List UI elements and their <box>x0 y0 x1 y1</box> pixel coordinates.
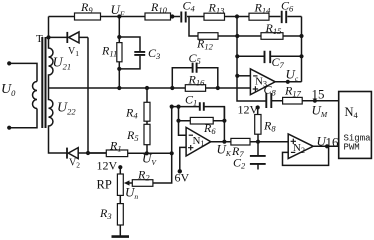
resistor R17 <box>283 97 303 104</box>
wire N3 minus input <box>237 75 250 77</box>
node R6 right <box>222 119 226 123</box>
capacitor C7 branch <box>237 55 301 57</box>
resistor R3 <box>117 204 123 225</box>
transformer core <box>41 37 43 128</box>
node V1/V2 join <box>86 151 90 155</box>
diode V2 <box>66 148 68 159</box>
node N2 output <box>325 144 329 148</box>
wire top rail y=16.5 <box>49 16 302 18</box>
op-amp N3 <box>250 69 275 95</box>
node on top rail x=172.3 <box>170 14 174 18</box>
node C1 line left <box>170 105 174 109</box>
svg-text:12V: 12V <box>97 159 118 173</box>
wire Uf drop <box>118 17 120 38</box>
transformer primary leads <box>9 63 37 127</box>
capacitor C8 <box>266 93 271 108</box>
wire N1 output row y=141.7 <box>211 141 288 143</box>
capacitor C4 <box>181 12 185 23</box>
wire V2 to node <box>78 152 106 154</box>
svg-text:6V: 6V <box>175 171 190 185</box>
capacitor C3 branch <box>119 37 140 69</box>
transformer primary coil <box>33 82 38 109</box>
resistor R13 <box>204 13 225 20</box>
resistor R16 <box>185 85 205 92</box>
potentiometer RP <box>119 167 121 203</box>
capacitor C5 branch <box>172 68 218 88</box>
transformer secondary U22 <box>49 88 67 153</box>
wire R12 left branch <box>189 17 198 37</box>
node 6V <box>178 169 182 173</box>
node Uf <box>117 14 121 18</box>
svg-text:T: T <box>36 33 43 45</box>
wire UV corner up to N1 input node <box>171 107 173 154</box>
resistor R6 <box>179 120 225 122</box>
resistor R2 <box>132 180 153 187</box>
wire N1 inverting branch <box>179 107 187 136</box>
wire left drop to V1 node <box>48 17 50 38</box>
node UV rail corner <box>170 151 174 155</box>
PWM block N4 <box>339 92 372 159</box>
resistor R1 <box>106 150 127 157</box>
svg-text:12V: 12V <box>238 103 259 117</box>
resistor R7 <box>231 138 250 145</box>
node C7 right <box>299 54 303 58</box>
wire N3 output <box>275 81 301 83</box>
resistor R10 <box>145 13 171 20</box>
wire R12 to junction <box>218 35 238 37</box>
node UV <box>145 151 149 155</box>
node UM <box>313 99 317 103</box>
node UK <box>222 140 226 144</box>
resistor R12 <box>198 33 218 40</box>
wire mid rail y=88 center tap <box>49 87 251 89</box>
resistor R15 <box>237 35 301 37</box>
resistor R11 <box>118 37 120 69</box>
node 12V R8 supply <box>256 105 260 109</box>
wire right vertical x=301.5 <box>301 17 303 82</box>
op-amp N2 <box>288 134 313 159</box>
node R6 left <box>176 119 180 123</box>
svg-text:PWM: PWM <box>344 143 360 153</box>
node mid rail x=119 <box>117 86 121 90</box>
node R4 top <box>145 86 149 90</box>
capacitor C1 <box>200 102 204 111</box>
resistor R5 <box>146 121 148 153</box>
wire minus net vertical x=237.5 <box>237 17 266 102</box>
node R7/R8/C2 <box>256 140 260 144</box>
node N3 minus <box>235 74 239 78</box>
node R13/R14 <box>235 14 239 18</box>
svg-text:RP: RP <box>97 178 112 192</box>
wire drop to mid rail <box>118 69 120 88</box>
wire corner down to R2 <box>153 153 172 183</box>
node R11 C3 bottom <box>117 67 121 71</box>
wire feedback right vertical <box>223 107 225 142</box>
node R15 right <box>299 34 303 38</box>
svg-text:16: 16 <box>326 135 340 150</box>
resistor R14 <box>249 13 269 20</box>
wire V1 row y=37.4 <box>49 36 89 38</box>
node C7 left <box>235 54 239 58</box>
node R11 C3 top <box>117 35 121 39</box>
diode V1 <box>66 32 68 43</box>
wire C8 to R17 <box>271 100 338 102</box>
wire N2 output <box>313 145 339 147</box>
wire N1 plus input to 6V <box>180 147 186 171</box>
resistor R9 <box>75 13 101 20</box>
transformer secondary U21 <box>49 37 54 88</box>
wire V1 output drop x=88 <box>87 37 89 153</box>
wiper arrow into RP <box>128 182 132 184</box>
node at transformer top / V1 <box>46 35 50 39</box>
ground <box>119 225 121 236</box>
resistor R8 <box>257 108 259 142</box>
svg-text:15: 15 <box>312 87 325 102</box>
node R15 left <box>235 34 239 38</box>
wire UV rail y=153.3 <box>88 152 172 154</box>
wire C1 row y=106.6 <box>172 107 225 121</box>
capacitor C6 <box>282 11 287 23</box>
node C5 right on mid rail <box>216 86 220 90</box>
node 12V RP supply <box>118 165 122 169</box>
resistor R4 <box>146 88 148 102</box>
node Uc <box>286 80 290 84</box>
node N1 feedback top <box>176 105 180 109</box>
wire N2 feedback loop <box>283 146 329 165</box>
capacitor C2 <box>257 142 259 170</box>
node C5 left on mid rail <box>170 86 174 90</box>
terminal dots U0 <box>7 61 11 65</box>
op-amp N1 <box>186 127 211 156</box>
